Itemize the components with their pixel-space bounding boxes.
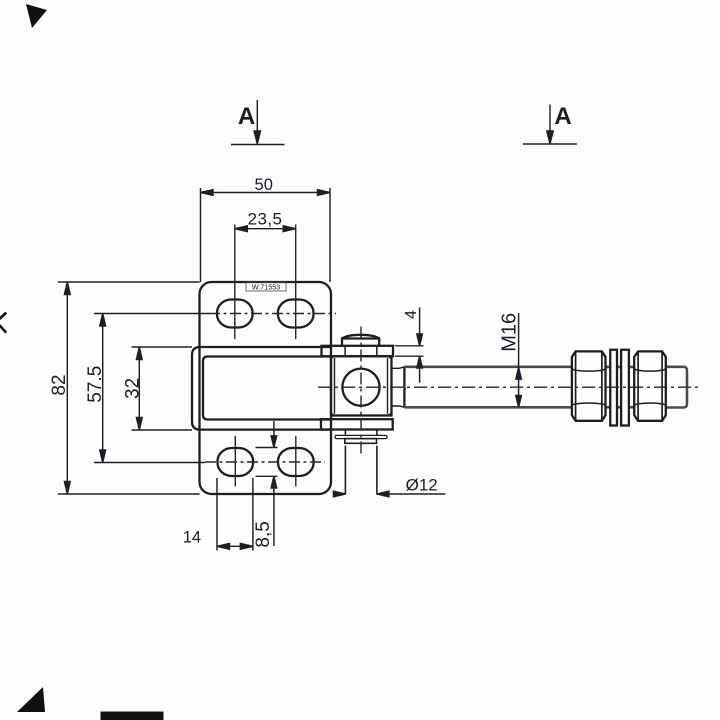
- svg-text:Ø12: Ø12: [406, 476, 438, 495]
- rod axis centerline: [318, 386, 699, 388]
- dim M16: [516, 313, 522, 407]
- plate outline: [200, 282, 332, 494]
- dim 32: [132, 347, 193, 430]
- pin bottom stem: [345, 446, 377, 495]
- pin through upper flange lines: [345, 346, 377, 356]
- dimension lines: [58, 100, 577, 551]
- lower nut on pin: [345, 439, 377, 444]
- dim 23,5: [235, 226, 296, 232]
- pin vertical centerline: [360, 327, 362, 458]
- top hole vertical crosshairs / 23,5 extension lines: [235, 225, 296, 340]
- pivot block: [331, 356, 392, 415]
- svg-text:M16: M16: [499, 313, 521, 352]
- top-left triangle mark: [26, 4, 47, 28]
- block chamfer right: [388, 356, 392, 415]
- rod body edges (gray): [404, 367, 687, 408]
- svg-text:82: 82: [49, 374, 70, 395]
- rod eye circle: [342, 369, 379, 406]
- pin below flange: [345, 430, 377, 436]
- rod neck: [392, 367, 405, 408]
- nut 2 chamfer arcs: [634, 369, 666, 406]
- hex nut 1: [572, 351, 606, 420]
- svg-text:14: 14: [183, 529, 201, 547]
- bottom-left triangle mark: [17, 687, 45, 712]
- dim 14: [217, 478, 253, 551]
- svg-text:W.71553: W.71553: [252, 282, 280, 291]
- washer under pivot: [335, 435, 387, 438]
- dim 50: [201, 188, 331, 282]
- svg-text:4: 4: [403, 310, 420, 319]
- bottom bar mark: [101, 712, 164, 720]
- nut 1 face lines: [576, 351, 602, 420]
- washer 1: [610, 350, 617, 426]
- svg-text:23,5: 23,5: [248, 210, 283, 229]
- pin upper flange: [322, 346, 394, 356]
- hole bottom-left: [218, 448, 254, 476]
- pin lower flange: [321, 419, 393, 429]
- stamp box W.71553: [246, 282, 286, 291]
- dim Ø12: [333, 491, 445, 497]
- hole bottom-right: [278, 448, 314, 476]
- section marker A left: [231, 100, 285, 145]
- svg-text:A: A: [238, 103, 255, 130]
- svg-text:32: 32: [123, 378, 144, 399]
- nut 2 face lines: [638, 351, 662, 420]
- svg-text:A: A: [554, 103, 571, 130]
- centerlines: [205, 225, 699, 487]
- svg-text:8,5: 8,5: [253, 521, 274, 547]
- bracket inner: [203, 357, 331, 420]
- dim 8,5: [256, 421, 278, 546]
- pin head dome: [342, 335, 379, 346]
- corner watermark remnants: [0, 4, 164, 720]
- hole top-left: [217, 300, 253, 328]
- block chamfer left: [331, 356, 335, 415]
- bracket outer: [192, 347, 331, 430]
- dim 4: [395, 308, 424, 383]
- rod left end line: [403, 367, 405, 408]
- dim 82: [58, 282, 200, 494]
- dim 57.5: [94, 314, 209, 463]
- rod end tip: [684, 367, 687, 408]
- bottom hole vertical crosshairs: [235, 436, 295, 487]
- washer 2: [621, 350, 629, 426]
- top holes horizontal centerline: [209, 313, 336, 315]
- left edge X mark: [0, 313, 6, 333]
- svg-text:50: 50: [255, 176, 273, 194]
- svg-text:57.5: 57.5: [85, 366, 106, 403]
- hex nut 2: [634, 351, 666, 420]
- nut 1 chamfer arcs: [572, 369, 606, 406]
- hole top-right: [278, 300, 314, 328]
- section marker A right: [523, 105, 577, 145]
- bottom holes horizontal centerline: [205, 461, 325, 463]
